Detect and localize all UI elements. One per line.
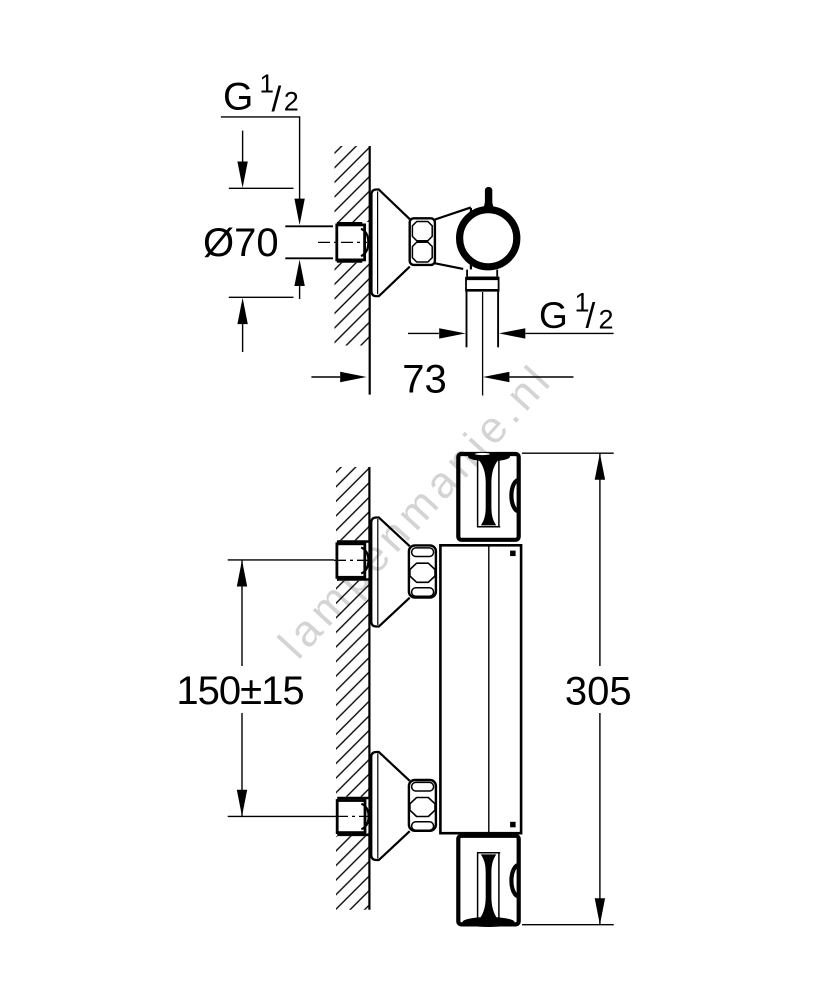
arrow down to pipe top (G1/2 dim) (294, 199, 304, 225)
svg-text:2: 2 (284, 86, 299, 116)
knob stem (top view) (481, 187, 496, 211)
bottom knob cylinder (front view) (458, 836, 519, 927)
mixer body (front view) (440, 545, 521, 833)
svg-text:305: 305 (565, 669, 632, 713)
dim 150±15 line and arrows (237, 560, 247, 816)
top escutcheon (front view) (371, 518, 409, 627)
dim 305 extension lines (522, 453, 614, 925)
dim G1/2 hose: right arrow (499, 328, 614, 338)
wall face line (front view) (368, 467, 370, 910)
arrow up to pipe bottom (G1/2 dim) (294, 260, 304, 299)
bottom wall fitting square (front view) (334, 797, 369, 836)
hose (top view) (467, 292, 499, 396)
label G 1/2 (hose) (539, 288, 614, 337)
dim G1/2 hose: left arrow (408, 328, 466, 338)
svg-text:/: / (272, 80, 282, 119)
svg-text:150±15: 150±15 (176, 669, 303, 713)
bottom escutcheon (front view) (371, 752, 409, 860)
valve body cone (top view) (435, 207, 471, 269)
svg-text:G: G (539, 295, 568, 336)
dim 73: left arrow (311, 372, 366, 382)
hose connector (top view) (466, 270, 499, 292)
svg-text:/: / (586, 297, 596, 336)
svg-text:2: 2 (599, 305, 614, 335)
wall hatching (top view) (335, 146, 370, 346)
top knob cylinder (front view) (458, 452, 519, 540)
bottom union nut (front view) (409, 780, 436, 831)
dim 305 line and arrows (595, 453, 605, 924)
dim Ø70 extension lines (229, 188, 294, 297)
knob circle (top view) (460, 210, 517, 267)
supply pipe (top view) (285, 226, 338, 258)
svg-text:Ø70: Ø70 (203, 221, 279, 265)
union nut (top view) (410, 218, 435, 265)
dim 73: right arrow (483, 372, 574, 382)
wall fitting square (top view) (318, 222, 369, 263)
dim Ø70 down arrow (237, 131, 247, 188)
dim 150±15 extension lines (228, 560, 336, 817)
svg-text:73: 73 (402, 357, 447, 401)
leader line under G 1/2 (221, 117, 300, 200)
wall hatching (front view) (336, 467, 369, 910)
wall face line (top view) (369, 146, 371, 395)
label G 1/2 (top) (223, 68, 299, 118)
dim Ø70 up arrow (237, 298, 247, 352)
top union nut (front view) (409, 545, 436, 597)
top wall fitting square (front view) (334, 540, 369, 581)
escutcheon cone (top view) (372, 190, 410, 297)
svg-text:G: G (223, 76, 253, 119)
